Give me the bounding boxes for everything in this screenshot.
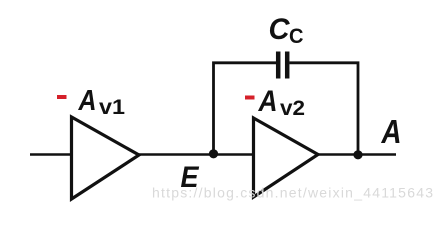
label CC xyxy=(269,13,304,48)
svg-text:A: A xyxy=(78,85,97,117)
op-amp Av2 xyxy=(254,118,319,197)
wire Av2 output to right through node A xyxy=(317,153,396,156)
op-amp Av1 xyxy=(72,117,140,199)
svg-text:A: A xyxy=(258,85,278,118)
label -Av1 xyxy=(57,85,125,119)
wire feedback left: node E up and right to capacitor xyxy=(214,63,277,154)
svg-text:C: C xyxy=(289,24,304,48)
svg-text:v1: v1 xyxy=(99,95,125,119)
svg-text:C: C xyxy=(269,13,291,46)
label -Av2 xyxy=(245,85,305,120)
capacitor CC xyxy=(278,52,287,79)
svg-text:https://blog.csdn.net/weixin_4: https://blog.csdn.net/weixin_44115643 xyxy=(152,185,433,201)
wire Av1 output to Av2 input through node E xyxy=(138,153,254,156)
svg-text:A: A xyxy=(381,113,402,150)
node E xyxy=(209,149,218,158)
node A xyxy=(353,150,362,159)
wire input to Av1 xyxy=(30,153,72,156)
svg-text:v2: v2 xyxy=(280,96,305,120)
wire feedback right: capacitor to node A xyxy=(290,63,359,154)
